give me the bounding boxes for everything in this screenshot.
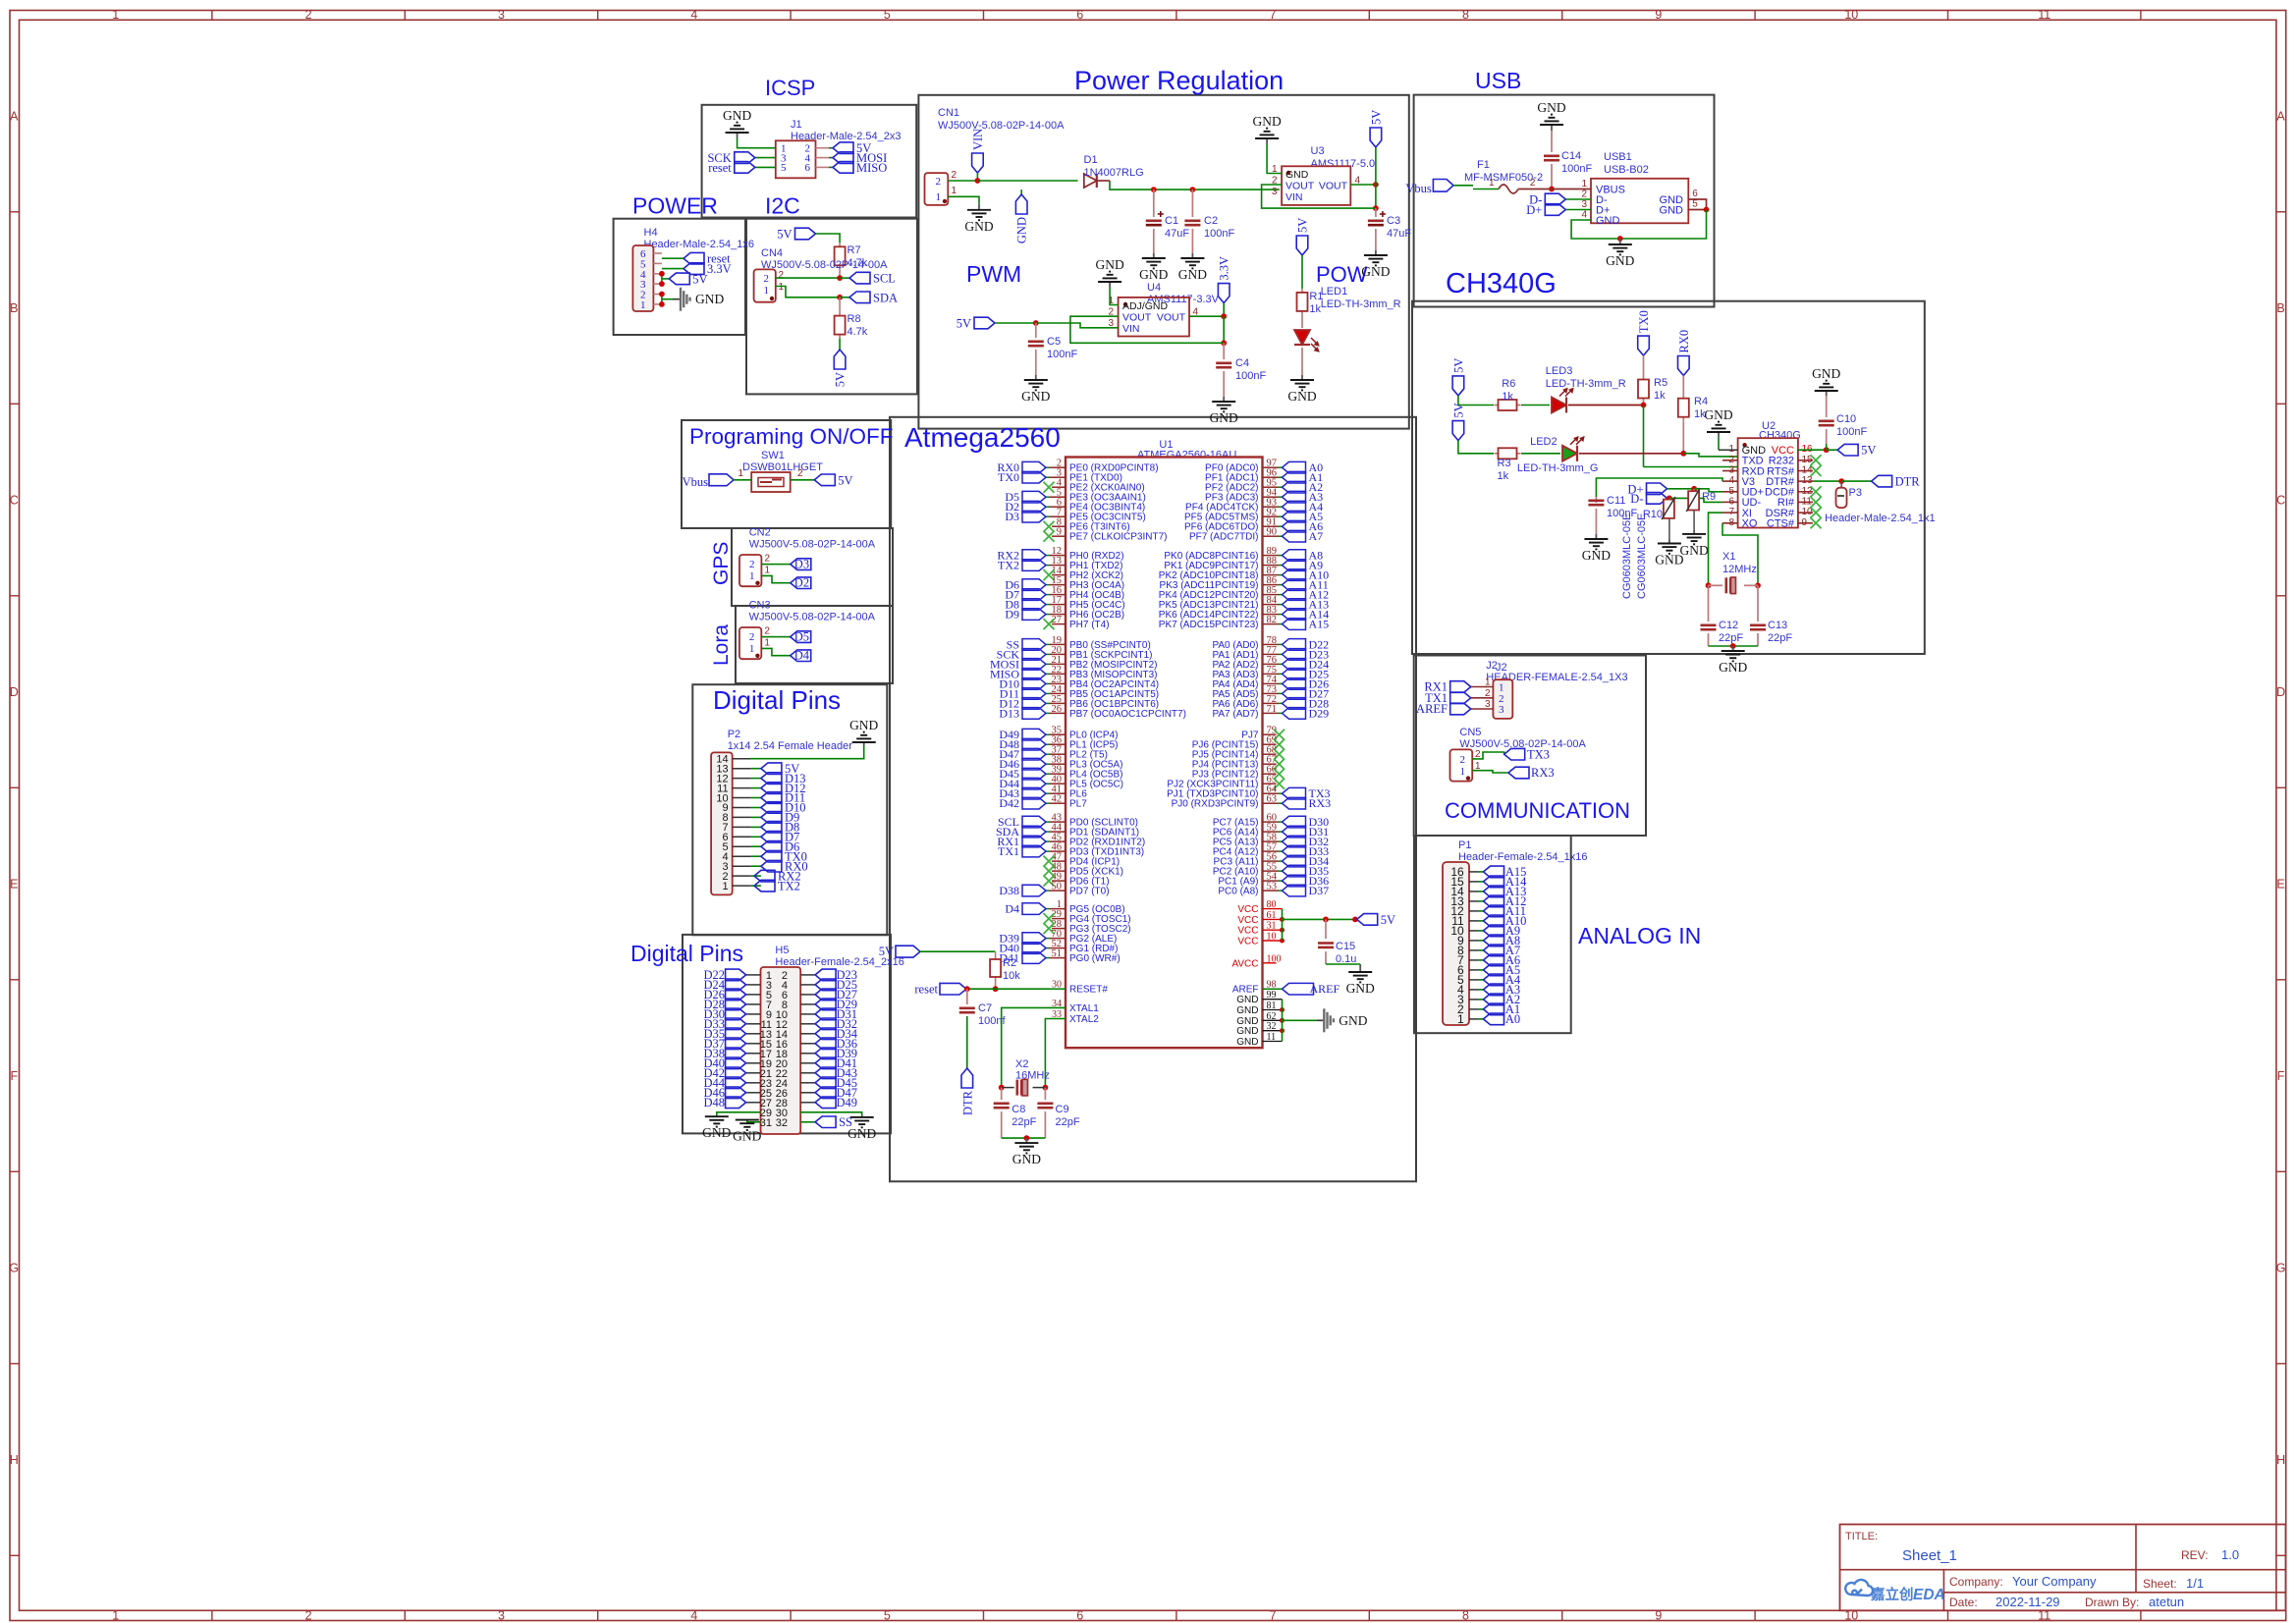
svg-text:PL7: PL7	[1069, 799, 1087, 810]
svg-text:1k: 1k	[1502, 391, 1513, 403]
svg-text:H4: H4	[644, 227, 658, 239]
svg-text:GND: GND	[1679, 543, 1708, 558]
svg-text:SDA: SDA	[873, 291, 898, 304]
svg-text:CH340G: CH340G	[1759, 430, 1801, 442]
svg-text:100nF: 100nF	[1204, 228, 1234, 240]
svg-text:5V: 5V	[879, 945, 894, 958]
svg-text:47uF: 47uF	[1165, 228, 1189, 240]
svg-text:2: 2	[1581, 189, 1587, 200]
svg-text:D1: D1	[1084, 154, 1098, 166]
svg-text:7: 7	[1270, 8, 1277, 22]
svg-text:GND: GND	[1285, 169, 1309, 181]
svg-text:F1: F1	[1477, 159, 1490, 171]
svg-text:VIN: VIN	[971, 129, 985, 150]
svg-text:2: 2	[952, 170, 957, 181]
svg-text:9: 9	[1655, 1608, 1662, 1622]
svg-text:AREF: AREF	[1232, 985, 1259, 996]
svg-text:8: 8	[1462, 1608, 1469, 1622]
svg-text:100nF: 100nF	[1235, 370, 1266, 382]
svg-text:VCC: VCC	[1237, 904, 1258, 915]
svg-text:2: 2	[765, 554, 771, 565]
svg-text:5V: 5V	[838, 473, 852, 487]
svg-text:6: 6	[1076, 8, 1083, 22]
svg-text:R3: R3	[1498, 458, 1511, 469]
svg-text:5: 5	[884, 8, 891, 22]
svg-text:GND: GND	[1346, 981, 1375, 996]
svg-text:5V: 5V	[777, 228, 792, 242]
svg-text:D3: D3	[794, 558, 809, 571]
svg-text:D5: D5	[794, 630, 809, 644]
svg-text:5V: 5V	[1381, 913, 1395, 927]
svg-text:PB7 (OC0AOC1CPCINT7): PB7 (OC0AOC1CPCINT7)	[1069, 709, 1186, 720]
svg-text:X2: X2	[1015, 1058, 1028, 1070]
svg-text:1k: 1k	[1309, 303, 1321, 315]
svg-text:3: 3	[1581, 199, 1587, 210]
svg-text:1: 1	[765, 566, 771, 576]
svg-text:10: 10	[1844, 8, 1858, 22]
svg-text:TX2: TX2	[998, 559, 1019, 572]
svg-text:E: E	[10, 878, 18, 892]
svg-text:VCC: VCC	[1237, 937, 1258, 947]
svg-text:CH340G: CH340G	[1446, 268, 1557, 299]
svg-text:D37: D37	[1309, 884, 1330, 897]
svg-text:USB1: USB1	[1604, 151, 1632, 163]
svg-text:DTR: DTR	[1895, 475, 1921, 489]
svg-text:C: C	[2276, 494, 2285, 508]
svg-text:5: 5	[781, 162, 787, 174]
svg-text:5V: 5V	[834, 372, 847, 387]
svg-text:P2: P2	[728, 729, 740, 740]
svg-text:D38: D38	[999, 884, 1019, 897]
svg-text:GND: GND	[1236, 995, 1258, 1005]
svg-text:COMMUNICATION: COMMUNICATION	[1445, 798, 1630, 823]
svg-text:嘉立创: 嘉立创	[1871, 1586, 1914, 1603]
svg-text:2: 2	[764, 273, 770, 285]
svg-text:reset: reset	[708, 161, 732, 175]
svg-text:1: 1	[936, 191, 942, 203]
svg-text:6: 6	[1692, 189, 1698, 199]
svg-text:VCC: VCC	[1237, 926, 1258, 937]
svg-text:B: B	[2276, 301, 2284, 315]
svg-text:H: H	[10, 1453, 19, 1467]
svg-text:RX3: RX3	[1531, 766, 1555, 780]
svg-text:Your Company: Your Company	[2012, 1574, 2097, 1589]
svg-text:Drawn By:: Drawn By:	[2085, 1596, 2139, 1609]
svg-text:9: 9	[1655, 8, 1662, 22]
svg-text:5: 5	[1692, 199, 1698, 210]
svg-text:GND: GND	[1719, 660, 1747, 675]
svg-text:Date:: Date:	[1949, 1596, 1978, 1609]
svg-text:I2C: I2C	[765, 193, 800, 219]
svg-text:GND: GND	[1582, 548, 1611, 563]
svg-text:Header-Male-2.54_1x1: Header-Male-2.54_1x1	[1825, 513, 1936, 524]
svg-text:GND: GND	[1015, 217, 1029, 243]
svg-text:C10: C10	[1836, 413, 1856, 425]
svg-text:5V: 5V	[1861, 444, 1876, 458]
svg-text:5V: 5V	[1451, 358, 1465, 373]
svg-text:1: 1	[722, 881, 728, 893]
svg-text:A0: A0	[1505, 1012, 1520, 1026]
svg-text:R6: R6	[1502, 378, 1515, 390]
svg-text:1: 1	[112, 1608, 119, 1622]
svg-text:C4: C4	[1235, 357, 1249, 369]
svg-text:4.7k: 4.7k	[847, 326, 868, 338]
svg-text:22pF: 22pF	[1719, 632, 1743, 644]
svg-text:1: 1	[779, 282, 785, 293]
svg-text:LED2: LED2	[1530, 436, 1558, 448]
svg-text:4: 4	[690, 1608, 697, 1622]
svg-text:TX2: TX2	[778, 879, 800, 893]
svg-text:G: G	[9, 1262, 19, 1275]
svg-text:CN5: CN5	[1459, 727, 1481, 738]
svg-text:GND: GND	[1210, 410, 1238, 425]
svg-text:G: G	[2276, 1262, 2286, 1275]
svg-text:ADJ/GND: ADJ/GND	[1122, 300, 1169, 312]
svg-text:SCL: SCL	[873, 272, 896, 286]
svg-text:1N4007RLG: 1N4007RLG	[1084, 167, 1144, 179]
svg-text:GND: GND	[849, 718, 878, 732]
svg-text:12MHz: 12MHz	[1722, 564, 1757, 575]
svg-text:LED1: LED1	[1321, 286, 1348, 298]
svg-text:Header-Female-2.54_1x16: Header-Female-2.54_1x16	[1458, 851, 1587, 863]
svg-text:Vbus: Vbus	[1405, 182, 1432, 195]
svg-text:CN3: CN3	[749, 600, 771, 612]
svg-text:MISO: MISO	[856, 161, 887, 175]
svg-text:6: 6	[1076, 1608, 1083, 1622]
svg-text:2: 2	[749, 559, 755, 570]
svg-text:5: 5	[884, 1608, 891, 1622]
svg-text:A: A	[10, 110, 19, 124]
svg-text:GND: GND	[702, 1125, 731, 1140]
svg-text:H: H	[2276, 1453, 2285, 1467]
svg-text:LED-TH-3mm_R: LED-TH-3mm_R	[1321, 298, 1401, 310]
svg-text:VOUT: VOUT	[1157, 312, 1186, 324]
svg-text:TX3: TX3	[1527, 747, 1550, 761]
svg-text:XO: XO	[1742, 518, 1758, 530]
svg-text:PF7 (ADC7TDI): PF7 (ADC7TDI)	[1189, 532, 1259, 543]
svg-text:F: F	[2277, 1069, 2285, 1083]
svg-text:CN4: CN4	[761, 247, 783, 259]
svg-text:3.3V: 3.3V	[1218, 256, 1231, 281]
svg-text:D4: D4	[794, 649, 810, 663]
svg-text:D-: D-	[1630, 492, 1643, 506]
svg-text:D49: D49	[837, 1096, 858, 1109]
svg-text:GND: GND	[1236, 1026, 1258, 1037]
svg-text:Programing ON/OFF: Programing ON/OFF	[689, 424, 894, 449]
svg-text:CN2: CN2	[749, 527, 771, 539]
svg-text:PJ0 (RXD3PCINT9): PJ0 (RXD3PCINT9)	[1172, 799, 1259, 810]
svg-text:ATMEGA2560-16AU: ATMEGA2560-16AU	[1137, 450, 1236, 461]
svg-text:C2: C2	[1204, 215, 1218, 227]
svg-text:1: 1	[749, 643, 755, 655]
svg-text:D: D	[2276, 685, 2285, 699]
svg-text:ICSP: ICSP	[765, 76, 815, 100]
svg-text:CG0603MLC-05E: CG0603MLC-05E	[1636, 514, 1648, 599]
svg-text:Vbus: Vbus	[683, 475, 709, 489]
svg-text:Header-Male-2.54_1x6: Header-Male-2.54_1x6	[644, 239, 755, 250]
svg-text:100nF: 100nF	[1561, 163, 1592, 175]
svg-text:C: C	[10, 494, 19, 508]
svg-text:CG0603MLC-05E: CG0603MLC-05E	[1621, 514, 1633, 599]
svg-text:D+: D+	[1526, 203, 1542, 217]
svg-text:F: F	[10, 1069, 18, 1083]
svg-text:1: 1	[764, 285, 770, 297]
svg-text:5V: 5V	[1369, 110, 1383, 125]
svg-text:D13: D13	[999, 706, 1019, 720]
svg-text:2: 2	[1460, 754, 1466, 766]
svg-text:1: 1	[1499, 682, 1504, 694]
svg-text:GND: GND	[1537, 100, 1565, 115]
svg-text:RX3: RX3	[1309, 796, 1332, 810]
svg-text:3: 3	[1485, 699, 1491, 710]
svg-text:SW1: SW1	[761, 450, 785, 461]
svg-text:GND: GND	[1021, 389, 1050, 404]
svg-text:2: 2	[936, 176, 942, 188]
svg-text:100nF: 100nF	[1047, 349, 1077, 360]
svg-text:C9: C9	[1056, 1104, 1069, 1115]
svg-text:A15: A15	[1309, 618, 1330, 631]
svg-text:D42: D42	[999, 796, 1019, 810]
svg-text:GND: GND	[1339, 1013, 1367, 1028]
svg-text:PA7 (AD7): PA7 (AD7)	[1212, 709, 1258, 720]
svg-text:GND: GND	[1236, 1016, 1258, 1027]
svg-text:AMS1117-5.0: AMS1117-5.0	[1311, 158, 1376, 170]
svg-text:USB-B02: USB-B02	[1604, 164, 1649, 176]
svg-text:GND: GND	[695, 292, 724, 306]
svg-text:A7: A7	[1309, 529, 1324, 543]
svg-text:R8: R8	[847, 313, 861, 325]
svg-text:Sheet_1: Sheet_1	[1902, 1547, 1957, 1564]
svg-text:EDA: EDA	[1913, 1587, 1945, 1603]
svg-text:R5: R5	[1654, 377, 1667, 389]
svg-text:1.0: 1.0	[2221, 1547, 2239, 1562]
svg-text:X1: X1	[1722, 551, 1735, 563]
svg-text:2: 2	[305, 8, 312, 22]
svg-text:XTAL1: XTAL1	[1069, 1003, 1099, 1014]
svg-text:R9: R9	[1702, 491, 1716, 503]
svg-text:1/1: 1/1	[2186, 1576, 2204, 1591]
svg-text:C5: C5	[1047, 336, 1061, 348]
svg-text:GND: GND	[1361, 264, 1390, 279]
svg-text:Digital Pins: Digital Pins	[713, 685, 841, 715]
svg-text:2: 2	[1485, 688, 1491, 699]
svg-text:1: 1	[640, 299, 646, 311]
svg-text:U3: U3	[1311, 145, 1325, 157]
svg-text:GND: GND	[1178, 267, 1207, 282]
svg-text:3: 3	[1499, 704, 1504, 716]
svg-text:5V: 5V	[692, 272, 707, 286]
svg-text:2: 2	[1530, 178, 1536, 189]
svg-text:GND: GND	[733, 1129, 761, 1144]
svg-text:10k: 10k	[1003, 970, 1020, 982]
svg-text:GND: GND	[1660, 204, 1684, 216]
svg-text:TX1: TX1	[998, 844, 1019, 858]
svg-text:3: 3	[1272, 187, 1278, 197]
svg-text:WJ500V-5.08-02P-14-00A: WJ500V-5.08-02P-14-00A	[749, 612, 876, 623]
svg-text:D3: D3	[1005, 510, 1019, 523]
svg-text:D2: D2	[794, 576, 809, 590]
svg-text:1: 1	[1581, 179, 1587, 189]
svg-text:PC0 (A8): PC0 (A8)	[1218, 887, 1258, 897]
svg-text:2: 2	[764, 626, 770, 637]
svg-text:A: A	[2276, 110, 2285, 124]
svg-text:GPS: GPS	[710, 542, 733, 585]
svg-text:1k: 1k	[1498, 470, 1509, 482]
svg-text:PD7 (T0): PD7 (T0)	[1069, 887, 1110, 897]
svg-text:1: 1	[952, 186, 957, 196]
svg-text:C13: C13	[1768, 620, 1787, 631]
svg-text:Power Regulation: Power Regulation	[1074, 66, 1284, 95]
svg-text:GND: GND	[1596, 215, 1620, 227]
svg-text:1: 1	[764, 638, 770, 649]
svg-text:H5: H5	[775, 945, 789, 956]
svg-text:VOUT: VOUT	[1122, 312, 1152, 324]
svg-text:AREF: AREF	[1310, 982, 1340, 996]
svg-text:C15: C15	[1336, 941, 1355, 952]
svg-text:31: 31	[760, 1117, 772, 1129]
svg-text:GND: GND	[1704, 407, 1732, 422]
svg-text:TX0: TX0	[1637, 310, 1651, 333]
svg-text:3.3V: 3.3V	[707, 262, 732, 276]
svg-text:VCC: VCC	[1237, 915, 1258, 926]
svg-text:POWER: POWER	[632, 193, 718, 219]
svg-text:GND: GND	[1287, 389, 1316, 404]
svg-text:C8: C8	[1011, 1104, 1025, 1115]
svg-text:D: D	[10, 685, 19, 699]
svg-text:AVCC: AVCC	[1231, 958, 1258, 969]
svg-text:TX0: TX0	[998, 470, 1019, 484]
svg-text:reset: reset	[914, 983, 938, 997]
svg-text:PWM: PWM	[966, 261, 1021, 287]
svg-text:GND: GND	[1236, 1005, 1258, 1016]
svg-text:D4: D4	[1005, 902, 1019, 916]
svg-text:C1: C1	[1165, 215, 1178, 227]
svg-text:1: 1	[1457, 1012, 1464, 1026]
svg-text:Digital Pins: Digital Pins	[630, 941, 743, 966]
svg-text:GND: GND	[1012, 1152, 1041, 1166]
svg-text:TITLE:: TITLE:	[1845, 1531, 1878, 1542]
svg-text:P3: P3	[1849, 487, 1862, 499]
svg-text:AREF: AREF	[1416, 702, 1448, 716]
svg-text:VOUT: VOUT	[1285, 181, 1315, 192]
svg-text:LED-TH-3mm_G: LED-TH-3mm_G	[1517, 462, 1599, 474]
svg-text:2: 2	[779, 270, 785, 281]
svg-text:4: 4	[690, 8, 697, 22]
svg-text:RESET#: RESET#	[1069, 985, 1108, 996]
svg-text:22pF: 22pF	[1011, 1116, 1036, 1128]
svg-text:XTAL2: XTAL2	[1069, 1014, 1099, 1025]
svg-text:atetun: atetun	[2149, 1595, 2184, 1609]
svg-text:VIN: VIN	[1122, 323, 1140, 335]
svg-text:R7: R7	[847, 244, 861, 256]
svg-text:5V: 5V	[1296, 218, 1310, 233]
svg-text:2022-11-29: 2022-11-29	[1995, 1595, 2060, 1609]
svg-text:GND: GND	[1095, 257, 1123, 272]
svg-text:2: 2	[749, 631, 755, 643]
svg-text:11: 11	[2038, 8, 2050, 22]
svg-text:GND: GND	[964, 219, 993, 234]
svg-text:C12: C12	[1719, 620, 1738, 631]
svg-text:8: 8	[1462, 8, 1469, 22]
svg-text:U4: U4	[1147, 282, 1161, 294]
svg-text:D48: D48	[703, 1096, 725, 1109]
svg-text:RX0: RX0	[1677, 330, 1691, 353]
svg-text:GND: GND	[1606, 253, 1634, 268]
svg-text:2: 2	[1499, 693, 1504, 705]
svg-text:22pF: 22pF	[1056, 1116, 1080, 1128]
svg-text:32: 32	[776, 1117, 788, 1129]
svg-text:PK7 (ADC15PCINT23): PK7 (ADC15PCINT23)	[1159, 620, 1259, 630]
svg-text:PE7 (CLKOICP3INT7): PE7 (CLKOICP3INT7)	[1069, 532, 1167, 543]
svg-text:D29: D29	[1309, 706, 1330, 720]
svg-text:WJ500V-5.08-02P-14-00A: WJ500V-5.08-02P-14-00A	[749, 539, 876, 551]
svg-text:USB: USB	[1475, 68, 1521, 93]
svg-text:2: 2	[305, 1608, 312, 1622]
svg-text:CN1: CN1	[938, 107, 959, 119]
svg-text:LED-TH-3mm_R: LED-TH-3mm_R	[1546, 378, 1626, 390]
svg-text:WJ500V-5.08-02P-14-00A: WJ500V-5.08-02P-14-00A	[938, 120, 1065, 132]
svg-text:CTS#: CTS#	[1767, 518, 1795, 530]
svg-text:1: 1	[112, 8, 119, 22]
svg-text:3: 3	[498, 8, 505, 22]
svg-text:1x14 2.54 Female Header: 1x14 2.54 Female Header	[728, 740, 853, 752]
svg-text:PG0 (WR#): PG0 (WR#)	[1069, 953, 1121, 964]
svg-text:D9: D9	[1005, 608, 1019, 622]
svg-text:1: 1	[749, 570, 755, 582]
svg-text:22pF: 22pF	[1768, 632, 1792, 644]
svg-text:C3: C3	[1387, 215, 1400, 227]
svg-text:C11: C11	[1607, 495, 1625, 507]
svg-text:LED3: LED3	[1546, 365, 1573, 377]
svg-text:5V: 5V	[1451, 403, 1465, 417]
svg-text:POW: POW	[1316, 262, 1368, 287]
svg-text:4: 4	[1581, 210, 1587, 221]
svg-text:100nF: 100nF	[1836, 426, 1867, 438]
svg-text:GND: GND	[723, 108, 751, 123]
svg-text:PH7 (T4): PH7 (T4)	[1069, 620, 1110, 630]
svg-text:Company:: Company:	[1949, 1575, 2003, 1589]
svg-text:1k: 1k	[1654, 390, 1666, 402]
svg-text:DTR: DTR	[960, 1090, 974, 1115]
svg-text:SS: SS	[839, 1115, 852, 1129]
svg-text:VOUT: VOUT	[1319, 181, 1348, 192]
svg-text:J1: J1	[791, 119, 802, 131]
svg-text:2: 2	[797, 468, 803, 479]
svg-text:GND: GND	[1139, 267, 1168, 282]
svg-text:GND: GND	[1236, 1037, 1258, 1048]
svg-text:1: 1	[1489, 178, 1495, 189]
svg-text:3: 3	[498, 1608, 505, 1622]
svg-text:GND: GND	[1812, 366, 1840, 381]
svg-text:B: B	[10, 301, 18, 315]
svg-text:E: E	[2276, 878, 2284, 892]
svg-text:16MHz: 16MHz	[1015, 1070, 1050, 1082]
svg-text:VIN: VIN	[1285, 191, 1303, 203]
svg-text:1: 1	[738, 468, 743, 479]
svg-text:Atmega2560: Atmega2560	[904, 422, 1061, 453]
svg-text:R2: R2	[1003, 957, 1016, 969]
svg-text:6: 6	[805, 162, 811, 174]
svg-text:5V: 5V	[957, 317, 971, 331]
svg-text:Sheet:: Sheet:	[2143, 1577, 2177, 1591]
svg-text:1: 1	[1485, 677, 1491, 688]
svg-text:C7: C7	[978, 1002, 992, 1014]
svg-text:ANALOG IN: ANALOG IN	[1578, 923, 1701, 948]
svg-text:C14: C14	[1561, 150, 1581, 162]
svg-text:7: 7	[1270, 1608, 1277, 1622]
svg-text:Lora: Lora	[710, 624, 733, 666]
svg-text:P1: P1	[1458, 839, 1471, 851]
